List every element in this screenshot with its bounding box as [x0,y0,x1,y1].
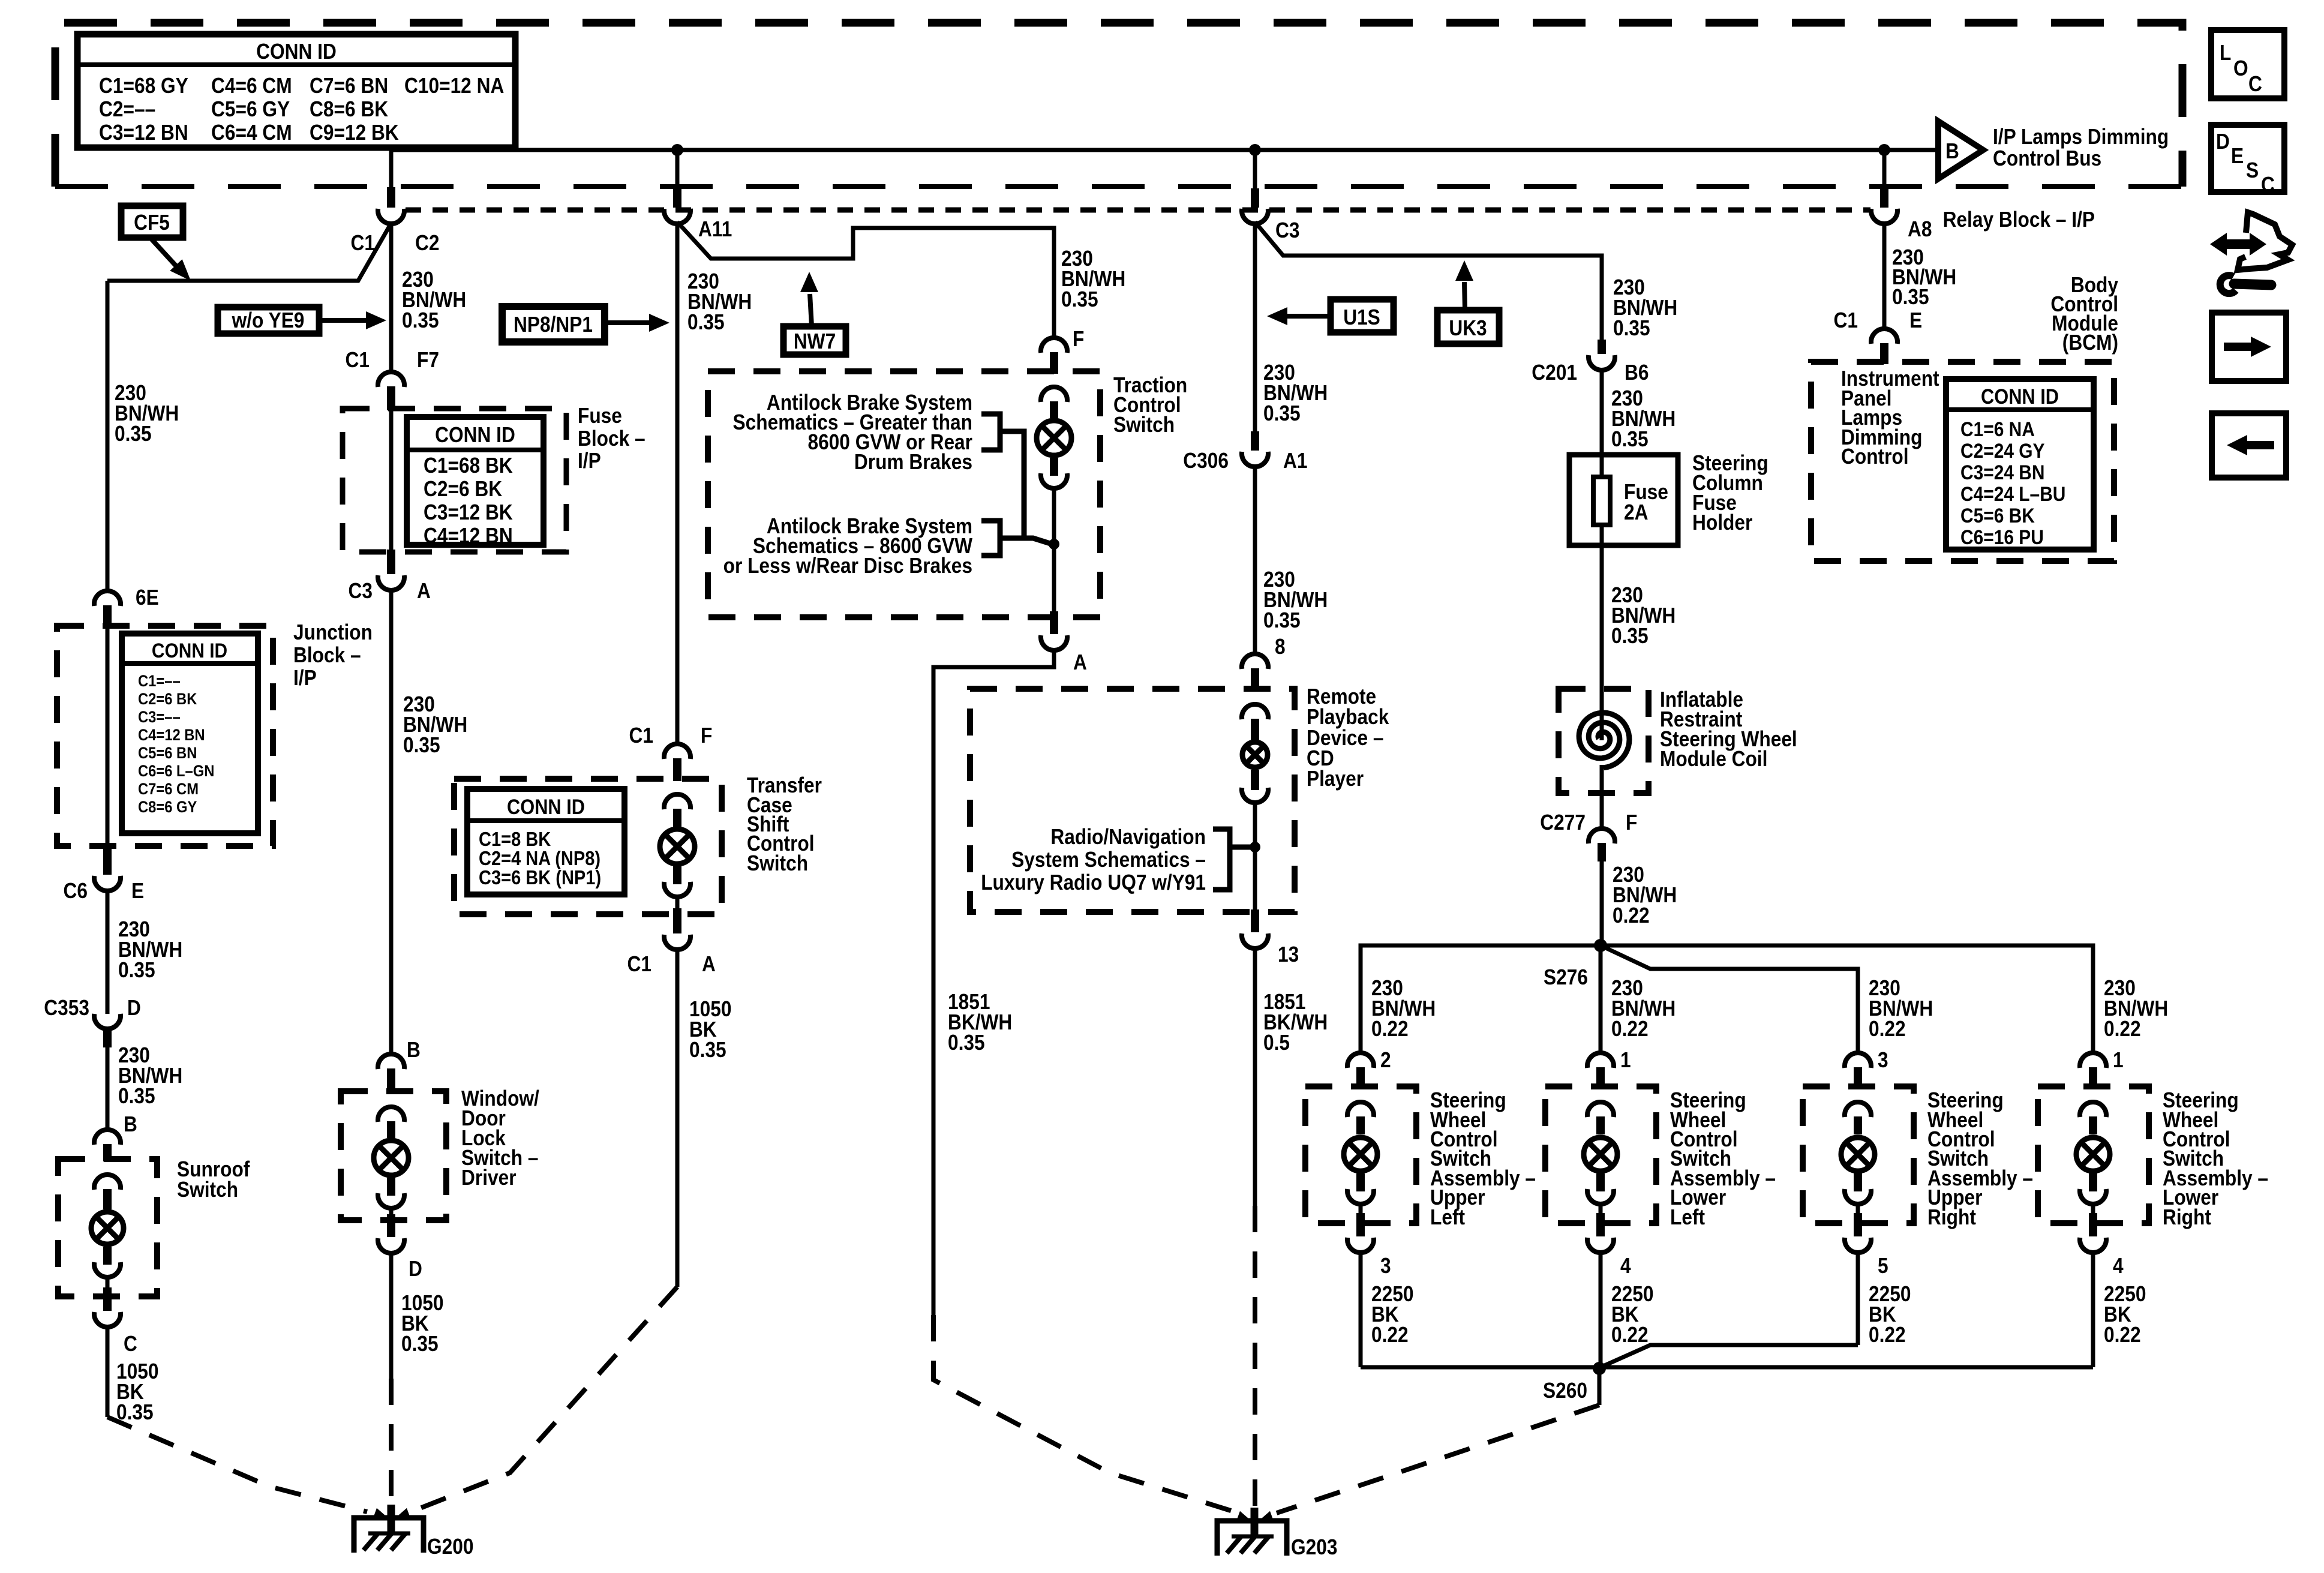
svg-text:C1: C1 [627,952,651,976]
svg-text:C4=24 L–BU: C4=24 L–BU [1960,482,2065,505]
svg-text:0.35: 0.35 [1611,624,1649,648]
connector C3/A bowl [378,575,404,590]
svg-text:U1S: U1S [1343,305,1380,329]
transfer CONN ID table frame [467,789,624,894]
svg-text:C3=––: C3=–– [138,709,181,727]
svg-text:C4=12 BN: C4=12 BN [138,727,205,745]
svg-text:Driver: Driver [461,1166,517,1190]
svg-text:0.22: 0.22 [2104,1017,2141,1041]
svg-text:NW7: NW7 [794,329,836,353]
inflatable restraint coil dashed box [1559,689,1649,793]
bracket ABS greater-than [981,414,1000,450]
steering terminal stub (col2) [1596,1116,1605,1134]
svg-text:CONN ID: CONN ID [435,423,515,447]
connector pin 4 bowl (col4) [2080,1238,2106,1253]
svg-text:0.35: 0.35 [402,308,439,332]
svg-text:Left: Left [1430,1205,1465,1229]
remote lamp lower stub [1251,770,1259,790]
transfer case dashed box [454,779,722,914]
traction terminal stub [1050,401,1058,418]
svg-text:C2=6 BK: C2=6 BK [138,691,197,709]
svg-text:8: 8 [1275,635,1286,659]
wire S276 branch col3 [1601,945,1858,1052]
svg-text:CF5: CF5 [134,211,170,235]
svg-text:E: E [131,879,144,903]
wire bus corner drop at C2 [389,148,394,188]
transfer exit wire [675,896,680,908]
remote playback dashed box [970,689,1295,912]
connector pin 2 stub (col1) [1356,1067,1365,1089]
wire S260 bypass col3 [1601,1345,1858,1367]
connector 8 hood [1242,654,1268,669]
lamp sunroof switch [91,1212,124,1244]
lamp traction control switch [1037,421,1071,455]
svg-text:2A: 2A [1624,500,1648,524]
svg-text:Player: Player [1307,767,1364,791]
svg-text:C4=6 CM: C4=6 CM [211,74,292,98]
svg-text:C5=6 BK: C5=6 BK [1960,504,2035,527]
connector pin 2 hood (col1) [1347,1053,1374,1068]
svg-text:C1: C1 [351,231,375,255]
svg-text:Right: Right [2163,1205,2211,1229]
steering terminal hood (col2) [1587,1102,1614,1117]
ground G203 arrowheads [1236,1511,1253,1523]
remote terminal stub [1251,719,1259,740]
NP8/NP1 arrow [605,320,649,325]
traction lamp lower stub [1050,458,1058,476]
wire diagonal C1 branch [107,223,391,281]
svg-text:Left: Left [1670,1205,1705,1229]
U1S box [1331,299,1394,332]
svg-text:E: E [2231,144,2244,168]
wire3 bottom [675,948,680,1287]
svg-text:E: E [1909,308,1922,332]
wire branch to fuse holder [1255,222,1602,342]
relay block CONN ID table frame [77,34,515,148]
BCM CONN ID table frame [1946,379,2094,550]
connector C353 bowl [94,1014,121,1029]
svg-text:B6: B6 [1625,361,1649,385]
wrench icon [2220,275,2236,293]
connector pin 5 bowl (col3) [1845,1238,1871,1253]
lamp steering wheel switch (col3) [1841,1137,1875,1171]
lamp window/door lock switch [374,1140,409,1175]
svg-text:L: L [2220,41,2231,65]
wire S260 rail [1361,1365,2093,1370]
svg-text:C3=12 BK: C3=12 BK [424,500,513,524]
svg-text:0.35: 0.35 [687,310,725,334]
sunroof terminal stub [103,1189,112,1209]
connector C stub [103,1287,112,1311]
remote terminal hood [1242,704,1268,719]
svg-text:C2=––: C2=–– [99,97,155,121]
wire2 lower [389,1252,394,1379]
svg-text:Radio/Navigation: Radio/Navigation [1050,825,1206,849]
connector C1/F7 stub [387,386,395,410]
connector C1/F hood [664,744,690,759]
lamp remote playback [1242,742,1268,767]
svg-text:0.22: 0.22 [1611,1017,1649,1041]
svg-text:Switch: Switch [747,851,808,875]
svg-text:A: A [1073,650,1087,674]
ground G203 [1217,1521,1287,1556]
transfer lamp lower stub [673,866,681,884]
lamp transfer case switch [660,829,695,864]
svg-text:0.35: 0.35 [118,958,155,982]
wire7 from bus [1882,150,1887,190]
svg-text:A1: A1 [1283,449,1307,473]
remote lower bowl [1242,788,1268,803]
svg-text:C6=4 CM: C6=4 CM [211,121,292,145]
sunroof exit wire [106,1276,110,1287]
svg-text:I/P: I/P [293,666,317,690]
steering wheel switch box (col3) [1803,1086,1914,1223]
svg-text:C7=6 CM: C7=6 CM [138,781,199,798]
connector C277 hood [1589,828,1615,843]
svg-text:System Schematics –: System Schematics – [1011,848,1206,872]
ground G200 [354,1518,424,1553]
inflatable coil spiral [1579,713,1629,768]
svg-text:B: B [124,1112,137,1136]
svg-text:CONN ID: CONN ID [507,795,585,818]
left arrow legend box [2212,413,2286,478]
wire3 from bus [675,150,680,190]
wire col2 to S260 [1599,1251,1603,1367]
steering exit stub (col4) [2089,1213,2097,1236]
connector 13 bowl [1242,933,1268,948]
svg-text:B: B [407,1038,421,1062]
svg-text:0.22: 0.22 [1611,1323,1649,1347]
svg-text:C353: C353 [44,996,89,1020]
wire1 horizontal+down [106,281,110,593]
wire C2 down to F7 [389,222,394,373]
connector C6/E stub [103,843,112,875]
svg-text:0.22: 0.22 [1613,903,1650,927]
svg-text:F: F [701,724,712,748]
svg-text:A: A [702,952,716,976]
sunroof terminal hood [94,1175,121,1190]
connector C1/F7 hood [378,372,404,387]
svg-text:0.22: 0.22 [2104,1323,2141,1347]
wire traction to 1851 run [933,649,1054,1315]
svg-text:0.22: 0.22 [1869,1017,1906,1041]
steering exit wire (col3) [1856,1203,1860,1213]
svg-text:Holder: Holder [1692,511,1752,535]
connector C1/A bowl (transfer) [664,935,690,950]
sunroof switch dashed box [58,1159,157,1296]
svg-text:C5=6 BN: C5=6 BN [138,745,197,763]
connector C201 stub [1598,340,1606,354]
svg-text:Control Bus: Control Bus [1993,146,2101,170]
bracket ABS less-than [981,521,1000,556]
wire3 dashed to G200 [414,1287,677,1511]
svg-text:2: 2 [1380,1048,1391,1072]
window/door lower bowl [378,1193,404,1208]
steering wheel switch box (col2) [1545,1086,1656,1223]
svg-text:0.35: 0.35 [689,1038,726,1062]
svg-text:F: F [1073,327,1084,351]
svg-text:C2: C2 [415,231,439,255]
node junction dot bus-A8 [1878,144,1890,156]
svg-text:0.35: 0.35 [1892,285,1929,309]
connector C306/A1 bowl [1242,452,1268,467]
connector pin 3 bowl (col1) [1347,1238,1374,1253]
svg-text:A: A [417,579,431,603]
connector B stub [387,1068,395,1094]
connector C353 stub [103,1028,112,1047]
svg-text:CONN ID: CONN ID [1981,385,2059,408]
steering lower bowl (col1) [1347,1189,1374,1204]
steering terminal hood (col4) [2080,1102,2106,1117]
wire1 dashed to G200 [107,1417,367,1512]
steering terminal hood (col1) [1347,1102,1374,1117]
svg-text:or Less w/Rear Disc Brakes: or Less w/Rear Disc Brakes [723,554,972,578]
svg-text:S276: S276 [1544,965,1588,989]
svg-text:Module Coil: Module Coil [1660,747,1767,771]
lamp steering wheel switch (col2) [1584,1137,1617,1171]
steering terminal stub (col4) [2089,1116,2097,1134]
svg-text:Junction: Junction [293,620,373,644]
svg-text:5: 5 [1878,1254,1888,1278]
connector A11 stub [673,188,681,208]
steering lamp lower stub (col4) [2089,1173,2097,1191]
svg-text:I/P: I/P [578,449,601,473]
wire1 to sunroof [106,1047,110,1131]
svg-text:CONN ID: CONN ID [152,639,227,662]
wire5 down [1253,222,1257,433]
svg-text:C3: C3 [1275,218,1299,242]
svg-text:13: 13 [1278,942,1299,966]
window/door lock switch dashed box [341,1091,446,1220]
bracket radio/navigation [1213,829,1230,890]
sunroof lamp lower stub [103,1247,112,1265]
traction exit bowl A [1041,635,1067,650]
coil wires [1600,689,1604,740]
traction lower bowl [1041,473,1067,488]
steering lamp lower stub (col3) [1854,1173,1862,1191]
wire5 bottom solid [1253,947,1257,1206]
svg-text:0.35: 0.35 [115,422,152,446]
svg-text:0.22: 0.22 [1371,1323,1409,1347]
connector pin 1 hood (col2) [1587,1053,1614,1068]
node dot radio junction [1250,842,1260,852]
svg-text:C1: C1 [1834,308,1858,332]
connector pin 4 bowl (col2) [1587,1238,1614,1253]
steering exit stub (col1) [1356,1213,1365,1236]
svg-text:0.35: 0.35 [118,1084,155,1108]
svg-text:CONN ID: CONN ID [256,40,337,64]
transfer terminal stub [673,809,681,827]
U1S arrow [1286,314,1331,319]
svg-text:C2=6 BK: C2=6 BK [424,477,503,501]
UK3 arrow [1464,282,1465,310]
node junction dot bus-C3 [1249,144,1261,156]
junction block dashed box [57,626,273,846]
steering exit wire (col1) [1359,1203,1363,1213]
BCM dashed box [1811,362,2114,561]
wire inside junction block [106,628,110,846]
wire1 below junction [106,890,110,1014]
window/door terminal hood [378,1107,404,1122]
connector A8 stub [1880,188,1888,208]
svg-text:C: C [124,1332,137,1356]
svg-text:0.35: 0.35 [1263,608,1301,632]
connector C3 bowl (relay) [1242,209,1268,224]
CF5 arrow [151,239,178,268]
connector pin 3 stub (col3) [1854,1067,1862,1089]
wire S260 down [1598,1368,1602,1405]
connector C201 bowl [1589,355,1615,370]
traction terminal hood [1041,387,1067,402]
NW7 box [783,326,846,355]
connector A8 bowl [1871,209,1897,224]
svg-text:C3: C3 [349,579,373,603]
svg-text:0.35: 0.35 [1263,401,1301,425]
fuse block dashed box [343,409,566,552]
wire3 down [675,222,680,744]
connector pin 1 hood (col4) [2080,1053,2106,1068]
svg-text:C6: C6 [64,879,88,903]
I/P harness dotted boundary line [406,208,1870,213]
wire inside fuse block [389,410,394,552]
wire6 below fuse [1600,545,1604,689]
svg-text:Relay Block – I/P: Relay Block – I/P [1943,208,2095,232]
svg-text:Right: Right [1927,1205,1976,1229]
lamp steering wheel switch (col1) [1344,1137,1377,1171]
steering terminal stub (col3) [1854,1116,1862,1134]
connector C6/E bowl [94,876,121,891]
steering lower bowl (col2) [1587,1189,1614,1204]
svg-text:w/o YE9: w/o YE9 [232,308,305,332]
ground G200 arrowheads [373,1508,389,1520]
svg-text:C10=12 NA: C10=12 NA [404,74,504,98]
svg-text:C3=6 BK (NP1): C3=6 BK (NP1) [479,866,601,888]
svg-text:0.35: 0.35 [401,1332,439,1356]
connector C1/E stub [1880,343,1888,364]
transfer exit stub [673,908,681,933]
LOC legend box [2211,30,2284,98]
fuse block CONN ID table frame [407,417,544,545]
connector B sunroof stub [103,1144,112,1161]
connector A11 bowl [664,209,690,224]
svg-text:C4=12 BN: C4=12 BN [424,524,513,548]
svg-text:Fuse: Fuse [578,404,622,428]
steering wheel switch box (col4) [2038,1086,2149,1223]
steering lamp lower stub (col1) [1356,1173,1365,1191]
connector C3/A stub [387,550,395,574]
svg-text:Block –: Block – [293,643,361,667]
connector F stub [1050,352,1058,374]
DESC legend box [2211,125,2284,192]
CF5 box [121,206,183,238]
svg-text:C3=24 BN: C3=24 BN [1960,461,2044,484]
UK3 box [1437,310,1499,344]
node junction dot bus-A11 [671,144,683,156]
svg-text:C7=6 BN: C7=6 BN [310,74,388,98]
svg-text:C201: C201 [1532,361,1577,385]
window/door terminal stub [387,1121,395,1138]
transfer terminal hood [664,794,690,809]
wire6 to fuse box [1600,369,1604,480]
svg-text:C1=6 NA: C1=6 NA [1960,418,2035,440]
antilock brake system dashed box [708,371,1100,617]
wire6 to S276 [1600,861,1604,945]
svg-text:Control: Control [1841,445,1909,469]
connector C1/C2 stub [387,187,395,208]
right arrow legend box [2212,313,2286,381]
svg-text:I/P Lamps Dimming: I/P Lamps Dimming [1993,125,2169,149]
connector pin 3 hood (col3) [1845,1053,1871,1068]
svg-text:C6=6 L–GN: C6=6 L–GN [138,763,214,781]
buffer B triangle on bus [1938,121,1983,179]
svg-text:C: C [2261,173,2275,197]
connector B sunroof hood [94,1130,121,1145]
svg-text:D: D [127,996,141,1020]
svg-text:1: 1 [1620,1048,1631,1072]
steering exit wire (col4) [2091,1203,2095,1213]
svg-text:3: 3 [1878,1048,1888,1072]
traction exit stub [1050,611,1058,634]
steering lower bowl (col4) [2080,1189,2106,1204]
relay block bottom dashed edge [55,184,2182,189]
svg-text:D: D [2216,130,2230,154]
steering column fuse holder box [1569,455,1678,545]
svg-text:0.22: 0.22 [1371,1017,1409,1041]
NW7 arrow [810,294,812,326]
connector F hood [1041,338,1067,353]
connector C277 stub [1598,843,1606,861]
lamp steering wheel switch (col4) [2076,1137,2110,1171]
connector C1/C2 bowl [378,209,404,224]
svg-text:C2=24 GY: C2=24 GY [1960,439,2045,462]
wire5 from bus [1253,150,1257,190]
wire col2 down [1599,945,1603,1052]
svg-text:A8: A8 [1908,217,1932,241]
steering terminal hood (col3) [1845,1102,1871,1117]
svg-text:C8=6 BK: C8=6 BK [310,97,389,121]
svg-text:0.5: 0.5 [1263,1031,1290,1055]
steering lower bowl (col3) [1845,1189,1871,1204]
svg-text:0.35: 0.35 [403,733,440,757]
svg-text:0.22: 0.22 [1869,1323,1906,1347]
w/o YE9 box [218,307,319,334]
svg-text:G200: G200 [427,1535,473,1559]
w/o YE9 arrow [319,318,366,323]
steering wheel switch box (col1) [1305,1086,1416,1223]
svg-text:A11: A11 [698,217,732,241]
svg-text:UK3: UK3 [1449,316,1487,340]
svg-text:Switch: Switch [177,1178,238,1202]
svg-text:6E: 6E [136,586,159,610]
connector C306/A1 stub [1251,431,1259,451]
connector B hood [378,1054,404,1069]
wire2 mid [389,589,394,1055]
svg-text:(BCM): (BCM) [2062,331,2118,355]
svg-text:4: 4 [1620,1254,1631,1278]
wire col1 to S260 rail [1359,1251,1363,1367]
svg-text:C6=16 PU: C6=16 PU [1960,526,2044,548]
wire NW7 branch [677,222,1054,340]
svg-text:C306: C306 [1183,449,1229,473]
splice S276 dot [1594,939,1607,952]
steering exit stub (col2) [1596,1213,1605,1236]
svg-text:0.35: 0.35 [1613,316,1650,340]
wire5 dashed to G203 [1253,1206,1257,1506]
wire col4 to S260 rail [2091,1251,2095,1367]
connector 8 stub [1251,668,1259,691]
connector 6E hood [94,591,121,606]
steering terminal stub (col1) [1356,1116,1365,1134]
